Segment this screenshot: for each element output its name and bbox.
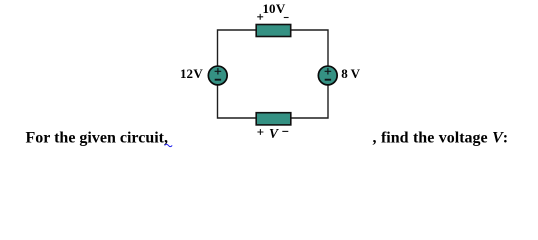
svg-text:, find the voltage V:: , find the voltage V:: [373, 130, 509, 147]
svg-text:V: V: [269, 126, 279, 141]
svg-text:10V: 10V: [263, 1, 286, 16]
svg-text:12V: 12V: [180, 66, 203, 81]
svg-text:For the given circuit,: For the given circuit,: [26, 130, 169, 147]
svg-text:8V: 8V: [341, 66, 360, 81]
